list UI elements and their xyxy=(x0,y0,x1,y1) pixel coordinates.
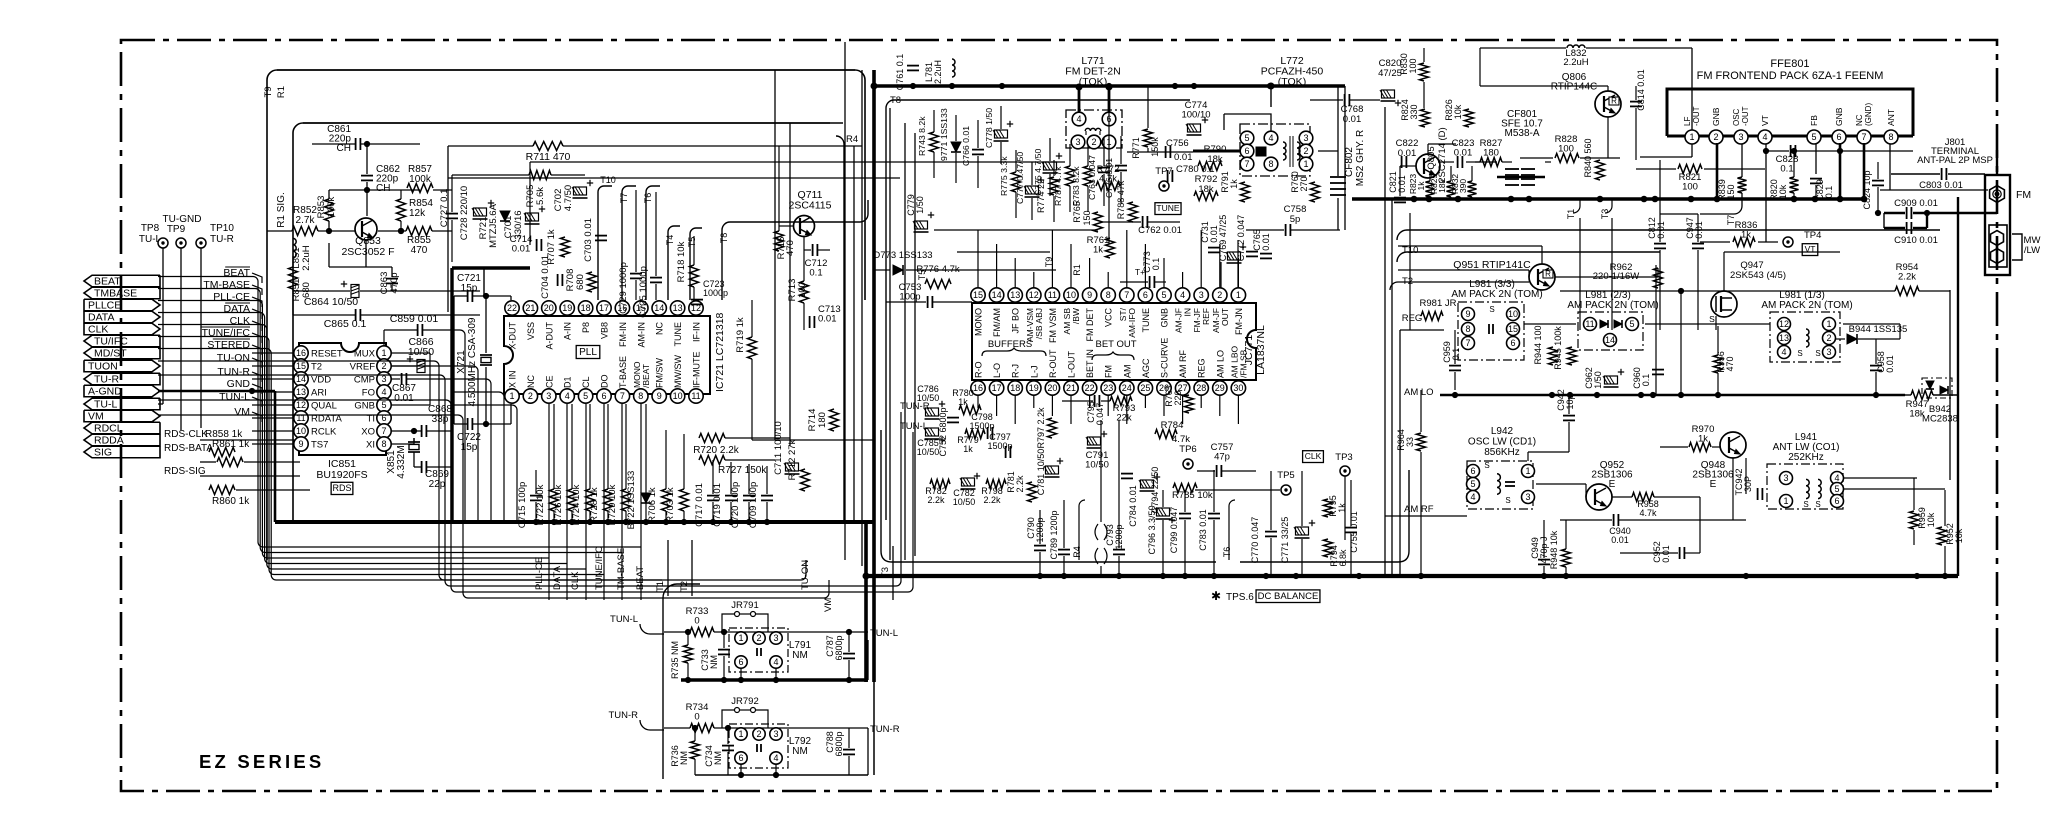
left vertical rails x530 xyxy=(529,162,531,245)
IC851 pin 13 ARI xyxy=(294,385,308,399)
connector TU-L xyxy=(84,398,160,410)
svg-text:18k: 18k xyxy=(1437,178,1447,192)
svg-text:VM: VM xyxy=(234,406,250,418)
svg-text:SIG: SIG xyxy=(94,447,112,459)
svg-text:C783 0.01: C783 0.01 xyxy=(1198,509,1208,551)
svg-text:C814 0.01: C814 0.01 xyxy=(1636,69,1646,111)
svg-text:T7: T7 xyxy=(619,193,629,204)
svg-text:10: 10 xyxy=(1066,290,1076,300)
svg-text:DATA: DATA xyxy=(88,312,114,324)
svg-text:6: 6 xyxy=(1510,338,1515,348)
wire Q805 network xyxy=(1427,144,1429,154)
svg-text:R711 470: R711 470 xyxy=(526,151,571,163)
svg-text:D1: D1 xyxy=(563,376,573,388)
svg-text:30P: 30P xyxy=(1743,476,1753,492)
svg-text:REF: REF xyxy=(1201,308,1211,325)
svg-text:NM: NM xyxy=(709,655,719,669)
svg-text:GNB: GNB xyxy=(1711,107,1721,126)
svg-text:14: 14 xyxy=(992,290,1002,300)
svg-text:FM-IN: FM-IN xyxy=(618,322,628,347)
svg-text:C859 0.01: C859 0.01 xyxy=(390,313,439,325)
svg-text:20: 20 xyxy=(1047,383,1057,393)
svg-text:1: 1 xyxy=(1236,290,1241,300)
svg-text:14: 14 xyxy=(654,303,664,313)
svg-text:RDS-SIG: RDS-SIG xyxy=(164,466,206,477)
svg-text:0.01: 0.01 xyxy=(1885,355,1895,373)
svg-text:R861 1k: R861 1k xyxy=(212,439,250,450)
wire Q947 source down xyxy=(1715,316,1717,330)
svg-text:C715 100p: C715 100p xyxy=(517,482,528,528)
svg-text:R706 1k: R706 1k xyxy=(647,487,658,523)
vertical trunk x1385 xyxy=(1384,107,1386,576)
svg-text:A-IN: A-IN xyxy=(563,322,573,340)
IC771 pin 15 MONO xyxy=(971,288,985,302)
svg-text:2: 2 xyxy=(756,729,761,739)
svg-text:RDS-BATA: RDS-BATA xyxy=(164,443,213,454)
frame inner SIG xyxy=(293,123,830,520)
svg-text:6800p: 6800p xyxy=(834,731,844,756)
svg-text:MC2838: MC2838 xyxy=(1922,414,1958,425)
svg-text:TMBASE: TMBASE xyxy=(94,288,137,300)
svg-text:2: 2 xyxy=(756,633,761,643)
svg-text:TPS.6: TPS.6 xyxy=(1226,592,1254,603)
svg-text:11: 11 xyxy=(691,391,700,401)
wire feed to FM pin xyxy=(1880,189,1988,191)
svg-text:3: 3 xyxy=(1525,492,1530,502)
svg-text:14: 14 xyxy=(1605,335,1615,345)
svg-text:7: 7 xyxy=(1244,159,1249,169)
connector PLLCE xyxy=(84,299,160,311)
svg-text:C784 0.01: C784 0.01 xyxy=(1128,485,1138,527)
svg-text:VSS: VSS xyxy=(526,322,536,340)
svg-text:100: 100 xyxy=(1408,58,1418,73)
test point TP7 xyxy=(1159,181,1169,191)
svg-text:REG: REG xyxy=(1197,358,1207,378)
svg-text:R727 150k: R727 150k xyxy=(718,465,767,476)
svg-text:8: 8 xyxy=(638,391,643,401)
svg-text:CE: CE xyxy=(544,375,554,388)
wire Q805 collector row xyxy=(1438,161,1454,163)
svg-text:21: 21 xyxy=(1066,383,1076,393)
svg-text:0.1: 0.1 xyxy=(1641,374,1651,387)
IC721 pin 12 IF-IN xyxy=(689,301,703,315)
resistor R720 2.2k xyxy=(699,434,725,443)
wires IC721 control pins down xyxy=(548,404,550,600)
svg-text:REG: REG xyxy=(1402,313,1423,324)
svg-text:C796 3.3/50: C796 3.3/50 xyxy=(1147,505,1157,554)
svg-text:RTIP144C: RTIP144C xyxy=(1551,82,1598,93)
svg-text:LA1837NL: LA1837NL xyxy=(1255,325,1267,375)
svg-text:R771: R771 xyxy=(1131,137,1141,159)
horizontal rail y123 xyxy=(303,122,843,124)
svg-text:19: 19 xyxy=(562,303,572,313)
IC771 pin 22 BET IN xyxy=(1082,381,1096,395)
svg-text:5: 5 xyxy=(1629,319,1634,329)
svg-text:R945 100k: R945 100k xyxy=(1553,326,1563,370)
svg-text:JR792: JR792 xyxy=(731,696,758,707)
svg-text:0.1: 0.1 xyxy=(1824,186,1834,199)
transistor Q853 2SC3052F xyxy=(355,218,377,240)
svg-text:C756: C756 xyxy=(1166,138,1189,149)
svg-text:8: 8 xyxy=(1888,132,1893,142)
svg-text:AM-IN: AM-IN xyxy=(636,322,646,348)
svg-text:XO: XO xyxy=(361,427,375,438)
svg-text:R4: R4 xyxy=(846,134,858,145)
svg-text:LF: LF xyxy=(1683,117,1692,126)
svg-text:100: 100 xyxy=(1558,144,1574,155)
IC771 pin 19 L-J xyxy=(1027,381,1041,395)
svg-text:NC: NC xyxy=(1855,114,1864,126)
frame label T8 xyxy=(722,200,868,300)
wires L981 1/3 right pins xyxy=(1843,323,1900,325)
svg-text:16: 16 xyxy=(296,348,306,358)
svg-text:RCLK: RCLK xyxy=(311,427,337,438)
svg-text:/BEAT: /BEAT xyxy=(641,364,651,388)
svg-text:2.2k: 2.2k xyxy=(927,495,945,505)
vertical trunk x1392 xyxy=(1391,199,1393,576)
wire Q806 emitter xyxy=(1607,117,1609,158)
svg-text:TM-BASE: TM-BASE xyxy=(203,279,250,291)
svg-text:T4: T4 xyxy=(665,235,675,246)
svg-text:S: S xyxy=(1803,500,1808,509)
svg-text:C766 0.01: C766 0.01 xyxy=(961,126,971,166)
svg-text:6: 6 xyxy=(738,657,743,667)
svg-text:29: 29 xyxy=(1215,383,1225,393)
svg-text:10/50: 10/50 xyxy=(917,393,940,403)
IC721 pin 21 VSS xyxy=(523,301,537,315)
svg-text:C728 220/10: C728 220/10 xyxy=(459,186,470,240)
svg-text:C752 6800p: C752 6800p xyxy=(938,407,948,456)
resistor R861 1k xyxy=(217,458,243,467)
svg-text:13: 13 xyxy=(296,387,306,397)
svg-text:4: 4 xyxy=(1268,133,1273,143)
wire TU-ON long route xyxy=(158,361,806,580)
svg-text:RDS-CLK: RDS-CLK xyxy=(164,429,208,440)
FFE801 pin 8 ANT xyxy=(1884,130,1898,144)
svg-text:XI: XI xyxy=(366,440,375,451)
svg-text:5: 5 xyxy=(1244,133,1249,143)
svg-text:15: 15 xyxy=(973,290,983,300)
wire IC771 VCC to top rail xyxy=(1108,86,1110,244)
frame label T7 xyxy=(622,186,636,300)
svg-text:NM: NM xyxy=(713,751,723,765)
svg-text:R4: R4 xyxy=(1072,546,1082,558)
IC771 pin 28 REG xyxy=(1194,381,1208,395)
FFE801 pin 5 FB xyxy=(1807,130,1821,144)
svg-text:4.7k: 4.7k xyxy=(1172,434,1190,445)
svg-text:R860 1k: R860 1k xyxy=(212,496,250,507)
svg-text:R981 JR: R981 JR xyxy=(1420,298,1457,309)
svg-text:TUN-R: TUN-R xyxy=(870,724,900,735)
FFE801 pin 6 GNB xyxy=(1832,130,1846,144)
frame label T7 under pin3 xyxy=(1700,193,1742,214)
frame label T10 xyxy=(598,186,612,300)
svg-text:S: S xyxy=(1489,305,1494,314)
connector TU-R xyxy=(84,373,160,385)
svg-text:S: S xyxy=(1815,349,1820,358)
svg-text:FM DET: FM DET xyxy=(1085,308,1095,342)
wire VM long route xyxy=(158,415,829,598)
svg-text:C778 1/50: C778 1/50 xyxy=(984,108,994,148)
svg-text:VREF: VREF xyxy=(350,362,376,373)
IC851 pin 8 XI xyxy=(377,437,391,451)
FFE801 pin7 GND stub thick xyxy=(1863,143,1866,199)
svg-text:0.01: 0.01 xyxy=(1397,175,1407,193)
svg-text:DO: DO xyxy=(600,375,610,389)
junction wires near Q853 xyxy=(433,189,452,191)
wires IC851 right pins to bus xyxy=(391,352,430,354)
svg-text:2: 2 xyxy=(1091,137,1096,147)
transistor Q711 2SC4115 xyxy=(794,216,815,237)
svg-text:10/50: 10/50 xyxy=(917,447,940,457)
svg-text:R712 27k: R712 27k xyxy=(787,439,798,480)
vertical feed thick left xyxy=(450,268,453,522)
svg-text:GNB: GNB xyxy=(1160,308,1170,328)
svg-text:100/10: 100/10 xyxy=(1181,110,1210,121)
connector CLK xyxy=(84,323,160,335)
wires Q711 xyxy=(778,214,780,231)
svg-text:3: 3 xyxy=(1199,290,1204,300)
frame label T6 xyxy=(646,186,660,300)
svg-text:12k: 12k xyxy=(409,208,426,219)
IC721 pin 14 NC xyxy=(652,301,666,315)
svg-text:4.332M: 4.332M xyxy=(396,445,407,478)
svg-text:0: 0 xyxy=(694,616,699,627)
connector MD/ST xyxy=(84,347,160,359)
IC721 pin 16 FM-IN xyxy=(615,301,629,315)
resistor R727 150k xyxy=(699,456,725,465)
svg-text:6: 6 xyxy=(601,391,606,401)
svg-text:0.01: 0.01 xyxy=(394,393,414,404)
svg-text:AM PACK 2N (TOM): AM PACK 2N (TOM) xyxy=(1761,300,1852,311)
IC851 pin 9 TS7 xyxy=(294,437,308,451)
svg-text:TUN-R: TUN-R xyxy=(217,366,250,378)
IC851 pin 16 RESET xyxy=(294,346,308,360)
svg-text:MTZJ5.6A: MTZJ5.6A xyxy=(488,203,499,247)
IC771 pin 11 FM VSM xyxy=(1045,288,1059,302)
vertical trunk x1950 xyxy=(1949,290,1951,480)
svg-text:P8: P8 xyxy=(581,322,591,333)
main horizontal trunk thick y86 xyxy=(874,84,1345,88)
svg-text:9: 9 xyxy=(1087,290,1092,300)
IC771 pin 25 AGC xyxy=(1138,381,1152,395)
svg-text:GND: GND xyxy=(227,378,251,390)
wire fan from bus labels down left section xyxy=(158,277,641,548)
svg-text:270: 270 xyxy=(1299,176,1309,191)
svg-text:3: 3 xyxy=(773,633,778,643)
svg-text:18k: 18k xyxy=(1198,184,1214,195)
svg-text:FO: FO xyxy=(362,388,375,399)
svg-text:390: 390 xyxy=(1458,179,1468,193)
module L792 NM xyxy=(729,724,788,768)
svg-text:7: 7 xyxy=(1861,132,1866,142)
wires L981 2/3 to neighbors xyxy=(1645,323,1770,325)
svg-text:2.2uH: 2.2uH xyxy=(301,245,312,270)
svg-text:ANT-PAL 2P MSP: ANT-PAL 2P MSP xyxy=(1917,155,1993,166)
svg-text:IF-IN: IF-IN xyxy=(692,322,702,342)
svg-text:R743 8.2k: R743 8.2k xyxy=(917,116,927,156)
svg-text:2SK543 (4/5): 2SK543 (4/5) xyxy=(1730,270,1786,281)
svg-text:TUON: TUON xyxy=(88,361,118,373)
svg-text:DATA: DATA xyxy=(224,303,250,315)
svg-text:FM VSM: FM VSM xyxy=(1048,308,1058,343)
svg-text:FB: FB xyxy=(1809,115,1819,126)
svg-text:22k: 22k xyxy=(1116,413,1132,424)
svg-text:2: 2 xyxy=(1713,132,1718,142)
IC721 pin 10 MW/SW xyxy=(670,389,684,403)
IC721 pin 22 X-DUT xyxy=(505,301,519,315)
IC721 pin 4 D1 xyxy=(560,389,574,403)
svg-text:7: 7 xyxy=(1465,338,1470,348)
IC771 pin 21 L-OUT xyxy=(1064,381,1078,395)
thick IF wire into L772 pin 6 xyxy=(1193,150,1240,153)
svg-text:T6: T6 xyxy=(1222,547,1232,558)
svg-text:R840 560: R840 560 xyxy=(1583,138,1593,177)
svg-text:MUX: MUX xyxy=(354,349,376,360)
svg-text:22p: 22p xyxy=(429,479,446,490)
svg-text:TP4: TP4 xyxy=(1804,230,1821,241)
svg-text:R728 1k: R728 1k xyxy=(589,487,600,523)
svg-text:470: 470 xyxy=(411,245,428,256)
ground bus right section thick y199 xyxy=(1352,197,1864,200)
svg-text:AM RF: AM RF xyxy=(1178,350,1188,379)
svg-text:2: 2 xyxy=(528,391,533,401)
svg-text:BEAT: BEAT xyxy=(223,267,250,279)
IC771 pin 24 AM xyxy=(1120,381,1134,395)
svg-text:0.01: 0.01 xyxy=(1261,233,1271,251)
wire Q951 emitter to R962 xyxy=(1555,276,1658,278)
IC771 pin 18 R-J xyxy=(1008,381,1022,395)
svg-text:252KHz: 252KHz xyxy=(1788,452,1824,463)
svg-text:/SB ABJ: /SB ABJ xyxy=(1034,308,1044,339)
wires IC771 right pins to L772 xyxy=(1237,240,1239,288)
svg-text:4: 4 xyxy=(1781,347,1786,357)
wire L772 secondary to CF802 xyxy=(1318,150,1338,152)
svg-text:L-OUT: L-OUT xyxy=(1067,350,1077,378)
svg-text:C909 0.01: C909 0.01 xyxy=(1894,198,1938,209)
connector TUON xyxy=(84,360,160,372)
svg-text:1: 1 xyxy=(738,633,743,643)
svg-text:QUAL: QUAL xyxy=(311,401,337,412)
svg-text:R948 10k: R948 10k xyxy=(1549,530,1559,569)
svg-text:A-DUT: A-DUT xyxy=(544,322,554,350)
ground bus L791 thick xyxy=(681,678,868,681)
horizontal rail y162 xyxy=(530,161,1065,163)
IC721 pin 2 NC xyxy=(523,389,537,403)
svg-text:R735 NM: R735 NM xyxy=(670,641,680,679)
svg-text:2SC3052 F: 2SC3052 F xyxy=(341,246,394,258)
svg-text:T5: T5 xyxy=(917,270,927,281)
svg-text:330: 330 xyxy=(1409,104,1419,119)
svg-text:5.6k: 5.6k xyxy=(535,187,546,205)
svg-text:TP3: TP3 xyxy=(1335,452,1352,463)
svg-text:L-J: L-J xyxy=(1029,365,1039,378)
resistor R860 1k xyxy=(209,486,235,495)
svg-text:0.01: 0.01 xyxy=(512,244,531,255)
svg-text:470: 470 xyxy=(1725,356,1735,371)
svg-text:R719 1k: R719 1k xyxy=(735,317,746,353)
svg-text:0.01: 0.01 xyxy=(1611,535,1629,545)
svg-text:0.01: 0.01 xyxy=(1661,545,1671,563)
svg-text:TP6: TP6 xyxy=(1179,444,1196,455)
svg-text:2.2k: 2.2k xyxy=(1015,475,1025,493)
IC721 pin 15 AM-IN xyxy=(634,301,648,315)
svg-text:8: 8 xyxy=(1465,324,1470,334)
svg-text:13: 13 xyxy=(673,303,683,313)
svg-text:21: 21 xyxy=(525,303,535,313)
svg-text:R784: R784 xyxy=(1161,420,1184,431)
svg-text:A-GND: A-GND xyxy=(88,386,122,398)
svg-text:1: 1 xyxy=(1783,496,1788,506)
svg-text:4: 4 xyxy=(773,657,778,667)
svg-text:T8: T8 xyxy=(890,95,901,106)
svg-text:19: 19 xyxy=(1029,383,1039,393)
svg-text:1: 1 xyxy=(1303,159,1308,169)
wire Q853 collector xyxy=(329,189,420,191)
svg-text:NC: NC xyxy=(526,375,536,388)
svg-text:OSC: OSC xyxy=(1732,108,1741,126)
svg-text:4: 4 xyxy=(1180,290,1185,300)
svg-text:1: 1 xyxy=(1826,319,1831,329)
IC851 pin 11 RDATA xyxy=(294,411,308,425)
svg-text:3: 3 xyxy=(546,391,551,401)
svg-text:R1 SIG.: R1 SIG. xyxy=(276,192,287,228)
svg-text:FFE801: FFE801 xyxy=(1770,58,1809,70)
svg-text:856KHz: 856KHz xyxy=(1484,447,1520,458)
test point TP4 VT xyxy=(1783,237,1793,247)
svg-text:10: 10 xyxy=(673,391,683,401)
svg-text:4: 4 xyxy=(1762,132,1767,142)
FFE801 pin 7 NC (GND) xyxy=(1857,130,1871,144)
svg-text:CL: CL xyxy=(581,376,591,388)
svg-text:25: 25 xyxy=(1140,383,1150,393)
svg-text:IF-MUTE: IF-MUTE xyxy=(692,352,702,389)
connector A-GND xyxy=(84,385,160,397)
svg-text:R783 8.2k: R783 8.2k xyxy=(1071,166,1081,206)
wire TUN-L long route xyxy=(158,400,913,592)
IC771 pin 10 AM SB /BW xyxy=(1064,288,1078,302)
junction dots ground bus right xyxy=(1037,573,1042,578)
svg-text:15p: 15p xyxy=(461,283,478,294)
J801 FM pin xyxy=(1990,186,2005,203)
svg-text:RDCL: RDCL xyxy=(94,423,123,435)
svg-text:ARI: ARI xyxy=(311,388,327,399)
svg-text:R-J: R-J xyxy=(1011,364,1021,378)
svg-text:CLK: CLK xyxy=(88,324,108,336)
connector TMBASE xyxy=(84,287,160,299)
svg-text:TS7: TS7 xyxy=(311,440,328,451)
svg-text:2: 2 xyxy=(1217,290,1222,300)
connector TU/IFC xyxy=(84,335,160,347)
svg-text:680: 680 xyxy=(575,274,586,290)
svg-text:1: 1 xyxy=(738,729,743,739)
svg-text:10k: 10k xyxy=(1778,184,1788,199)
svg-text:TU/IFC: TU/IFC xyxy=(94,336,128,348)
frame T8 label right xyxy=(886,100,1190,520)
svg-text:TUNE/IFC: TUNE/IFC xyxy=(202,327,251,339)
svg-text:EZ SERIES: EZ SERIES xyxy=(199,751,324,772)
svg-text:T1: T1 xyxy=(1566,209,1576,220)
svg-text:OUT: OUT xyxy=(1220,308,1230,326)
svg-text:6: 6 xyxy=(1834,496,1839,506)
svg-text:8: 8 xyxy=(381,439,386,449)
connector RDDA xyxy=(84,434,160,446)
svg-text:10: 10 xyxy=(1508,309,1518,319)
cascade wires IC851 right side to ground bus xyxy=(452,330,465,522)
svg-text:T-BASE: T-BASE xyxy=(618,356,628,388)
svg-text:3: 3 xyxy=(1826,347,1831,357)
module L791 NM xyxy=(729,628,788,672)
